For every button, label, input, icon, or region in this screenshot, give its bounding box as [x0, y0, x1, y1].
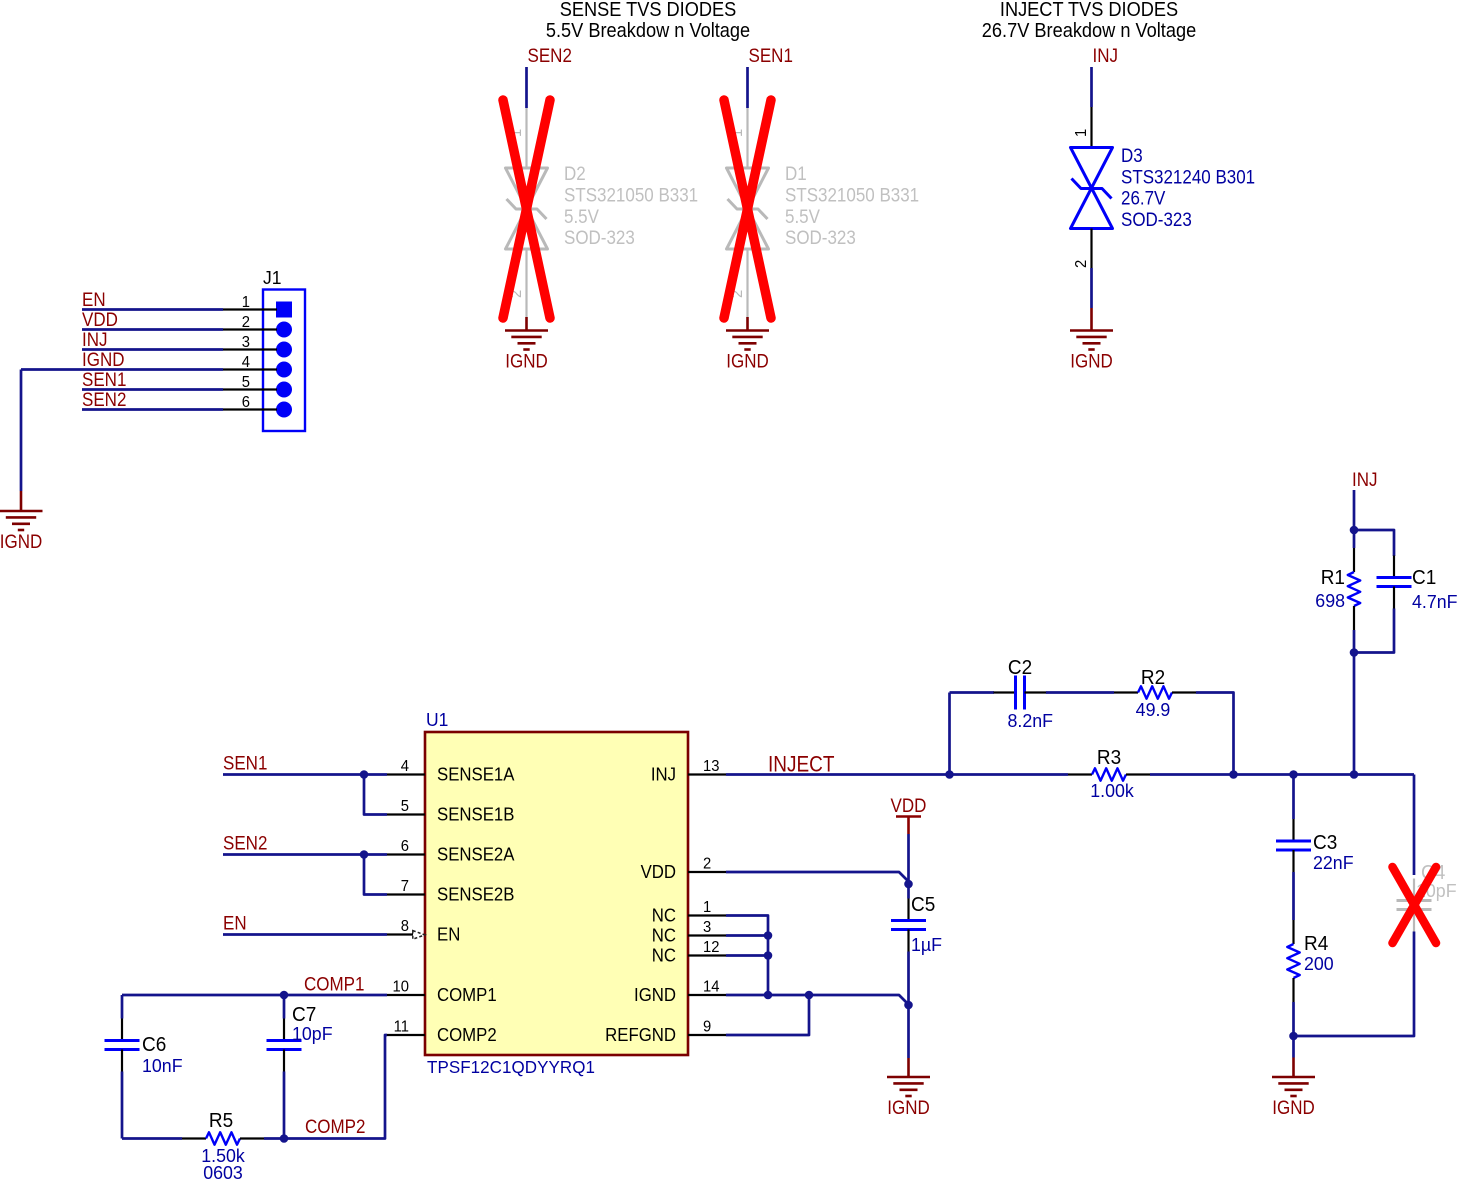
ground IGND (D1): [726, 329, 769, 332]
D3 pin 2 lead: [1090, 229, 1092, 269]
U1 pin 10 (COMP1) lead: [387, 994, 425, 996]
U1 pin 6 (SENSE2A) lead: [387, 853, 425, 855]
svg-text:INJECT TVS DIODES: INJECT TVS DIODES: [1000, 0, 1178, 21]
svg-text:COMP1: COMP1: [437, 984, 497, 1005]
node NC tie to IGND: [764, 991, 773, 1000]
J1 pin 5 lead: [223, 388, 277, 390]
wire SEN2 to D2: [525, 67, 528, 108]
svg-text:C2: C2: [1008, 657, 1032, 680]
node R4 / C4 return: [1289, 1032, 1298, 1041]
wire R3 to node: [1150, 773, 1234, 776]
svg-text:10pF: 10pF: [292, 1023, 333, 1045]
wire R1 top: [1353, 530, 1356, 548]
wire R1 bottom: [1353, 630, 1356, 653]
wire NC pin 12: [726, 954, 768, 957]
ground IGND (J1): [0, 510, 43, 513]
wire C1 branch top: [1354, 530, 1394, 556]
svg-text:22nF: 22nF: [1313, 852, 1354, 874]
wire main line right: [1234, 773, 1415, 776]
svg-text:INJ: INJ: [1093, 44, 1118, 66]
svg-text:NC: NC: [652, 905, 676, 926]
svg-text:1: 1: [1073, 129, 1091, 137]
wire C7 branch bottom: [283, 1072, 286, 1139]
D1 pin 1 lead: [746, 108, 748, 168]
U1 pin 12 (NC) lead: [688, 954, 726, 956]
U1 pin 1 (NC) lead: [688, 914, 726, 916]
svg-text:STS321050 B331: STS321050 B331: [564, 185, 698, 206]
wire net IGND to J1 pin 4: [21, 368, 223, 371]
J1 pin 6 round pad: [276, 402, 292, 418]
wire C3 to R4: [1292, 872, 1295, 920]
wire VDD down: [907, 834, 910, 884]
svg-text:INJ: INJ: [1352, 468, 1377, 490]
J1 pin 5 round pad: [276, 382, 292, 398]
wire INJECT from U1 pin 13: [726, 773, 950, 776]
node NC pin 12: [764, 951, 773, 960]
svg-text:26.7V Breakdow n Voltage: 26.7V Breakdow n Voltage: [982, 20, 1196, 42]
svg-text:SENSE1B: SENSE1B: [437, 804, 514, 825]
wire R2 to right corner: [1196, 693, 1234, 775]
svg-text:2: 2: [703, 855, 711, 873]
U1 pin 11 (COMP2) lead: [387, 1034, 425, 1036]
wire U1 pin 14 IGND: [726, 995, 909, 1005]
svg-text:R3: R3: [1097, 747, 1121, 770]
ground IGND (D3) stub: [1090, 308, 1093, 331]
svg-text:5: 5: [401, 798, 409, 816]
svg-text:NC: NC: [652, 925, 676, 946]
D1 pin 2 lead: [746, 249, 748, 317]
node NC pin 3: [764, 931, 773, 940]
U1 pin 13 (INJ) lead: [688, 773, 726, 775]
svg-text:D2: D2: [564, 163, 586, 184]
svg-text:IGND: IGND: [726, 349, 768, 371]
wire R4 bottom: [1292, 1002, 1295, 1058]
wire bottom C6 to R5: [122, 1137, 182, 1140]
svg-text:0603: 0603: [203, 1162, 243, 1180]
wire C2 to R2: [1046, 691, 1114, 694]
svg-text:4.7nF: 4.7nF: [1412, 591, 1458, 613]
node SEN1 split: [360, 770, 369, 779]
svg-text:7: 7: [401, 878, 409, 896]
wire IGND down from J1 pin 4: [20, 370, 23, 492]
svg-text:SENSE TVS DIODES: SENSE TVS DIODES: [560, 0, 737, 21]
svg-text:SENSE2B: SENSE2B: [437, 884, 514, 905]
J1 pin 6 lead: [223, 408, 277, 410]
svg-text:TPSF12C1QDYYRQ1: TPSF12C1QDYYRQ1: [427, 1057, 595, 1077]
svg-text:IGND: IGND: [634, 984, 676, 1005]
svg-text:2: 2: [1073, 260, 1091, 268]
node COMP2 / C7 junction: [280, 1134, 289, 1143]
U1 pin 8 (EN) input triangle: [413, 931, 425, 940]
ground IGND (D3): [1070, 329, 1113, 332]
svg-text:8.2nF: 8.2nF: [1008, 710, 1054, 732]
svg-text:IGND: IGND: [1070, 349, 1112, 371]
svg-text:REFGND: REFGND: [605, 1024, 676, 1045]
U1 pin 9 (REFGND) lead: [688, 1034, 726, 1036]
wire C2 branch top left: [950, 691, 995, 694]
resistor R5: [182, 1137, 206, 1139]
capacitor C6: [121, 1019, 123, 1041]
svg-text:6: 6: [401, 838, 409, 856]
node REFGND join: [805, 991, 814, 1000]
J1 pin 1 square pad: [276, 302, 292, 318]
wire SEN2 to pin 7: [364, 855, 387, 895]
resistor R1: [1353, 548, 1355, 572]
wire net SEN2 to J1 pin 6: [82, 408, 223, 411]
svg-text:R2: R2: [1141, 667, 1165, 690]
node R1/C1 top: [1350, 526, 1359, 535]
svg-text:EN: EN: [437, 924, 460, 945]
D2 pin 2 lead: [525, 249, 527, 317]
TVS diode D3: [1071, 148, 1113, 189]
capacitor C1: [1393, 556, 1395, 578]
U1 pin 7 (SENSE2B) lead: [387, 893, 425, 895]
node R1/C1 bottom: [1350, 648, 1359, 657]
svg-text:IGND: IGND: [0, 530, 42, 552]
ground IGND (C5) stub: [907, 1058, 910, 1077]
svg-text:3: 3: [703, 919, 711, 937]
svg-text:VDD: VDD: [891, 794, 927, 816]
wire SEN1: [223, 773, 387, 776]
node R1/C1 branch: [1350, 770, 1359, 779]
U1 pin 4 (SENSE1A) lead: [387, 773, 425, 775]
node R2/R3 join: [1229, 770, 1238, 779]
wire SEN1 to pin 5: [364, 775, 387, 815]
svg-text:SOD-323: SOD-323: [564, 227, 635, 248]
resistor R4: [1292, 920, 1294, 944]
svg-text:1.00k: 1.00k: [1090, 780, 1134, 802]
svg-text:4: 4: [242, 354, 251, 372]
U1 pin 5 (SENSE1B) lead: [387, 813, 425, 815]
wire INJECT to R3: [950, 773, 1069, 776]
wire U1 pin 2 VDD: [726, 872, 909, 882]
svg-text:4: 4: [401, 758, 410, 776]
svg-text:STS321050 B331: STS321050 B331: [785, 185, 919, 206]
red X over C4: [1393, 867, 1437, 943]
wire down to main line: [1353, 653, 1356, 775]
svg-text:VDD: VDD: [641, 861, 676, 882]
wire REFGND pin 9: [726, 995, 809, 1035]
J1 pin 2 round pad: [276, 322, 292, 338]
ground IGND (R4) stub: [1292, 1058, 1295, 1078]
node COMP1 / C7 junction: [280, 991, 289, 1000]
svg-text:IGND: IGND: [505, 349, 547, 371]
wire INJ to D3: [1090, 67, 1093, 107]
capacitor C4 (not fitted): [1413, 879, 1415, 901]
wire COMP2 to U1 pin 11: [264, 1035, 387, 1139]
svg-text:26.7V: 26.7V: [1121, 188, 1166, 209]
J1 pin 2 lead: [223, 328, 277, 330]
svg-text:10: 10: [393, 978, 409, 996]
svg-text:5.5V Breakdow n Voltage: 5.5V Breakdow n Voltage: [546, 20, 750, 42]
svg-text:12: 12: [703, 939, 719, 957]
wire NC pin 3: [726, 934, 768, 937]
svg-text:49.9: 49.9: [1136, 699, 1171, 721]
wire C6 branch bottom: [121, 1072, 124, 1139]
svg-text:SEN1: SEN1: [223, 751, 267, 773]
capacitor C7: [283, 1019, 285, 1041]
wire C6 branch top: [121, 995, 124, 1019]
ground IGND (D2) stub: [525, 317, 528, 331]
svg-text:1µF: 1µF: [911, 934, 942, 956]
svg-text:R5: R5: [209, 1110, 233, 1133]
capacitor C3: [1292, 819, 1294, 841]
svg-text:SEN2: SEN2: [223, 831, 267, 853]
U1 pin 2 (VDD) lead: [688, 871, 726, 873]
ground IGND (R4): [1272, 1076, 1315, 1079]
svg-text:3: 3: [242, 334, 250, 352]
svg-text:IGND: IGND: [1272, 1096, 1314, 1118]
svg-text:INJ: INJ: [651, 764, 676, 785]
U1 pin 14 (IGND) lead: [688, 994, 726, 996]
svg-text:R1: R1: [1321, 567, 1345, 590]
svg-text:6: 6: [242, 394, 250, 412]
wire C3 branch top: [1292, 775, 1295, 820]
svg-text:COMP2: COMP2: [437, 1024, 497, 1045]
svg-text:NC: NC: [652, 945, 676, 966]
svg-text:1: 1: [703, 899, 711, 917]
wire C1 branch bottom: [1354, 609, 1394, 653]
svg-text:C1: C1: [1412, 567, 1436, 590]
svg-text:D1: D1: [785, 163, 807, 184]
svg-text:5.5V: 5.5V: [564, 206, 600, 227]
node SEN2 split: [360, 850, 369, 859]
resistor R2: [1114, 691, 1138, 693]
wire SEN1 to D1: [746, 67, 749, 108]
svg-text:11: 11: [394, 1018, 409, 1036]
svg-text:SENSE1A: SENSE1A: [437, 764, 515, 785]
U1 pin 8 (EN) lead: [387, 933, 413, 935]
wire net INJ to J1 pin 3: [82, 348, 223, 351]
D2 pin 1 lead: [525, 108, 527, 168]
ground IGND (C5): [887, 1076, 930, 1079]
node IGND / C5 bottom: [904, 1001, 913, 1010]
svg-text:5.5V: 5.5V: [785, 206, 821, 227]
wire net EN to J1 pin 1: [82, 308, 223, 311]
wire EN: [223, 933, 387, 936]
svg-text:13: 13: [703, 758, 719, 776]
svg-text:U1: U1: [426, 709, 448, 730]
svg-text:D3: D3: [1121, 145, 1143, 166]
svg-text:1: 1: [242, 294, 250, 312]
wire C2 branch up: [948, 693, 951, 775]
J1 pin 4 round pad: [276, 362, 292, 378]
svg-text:COMP1: COMP1: [304, 972, 364, 994]
svg-text:SEN2: SEN2: [528, 44, 572, 66]
capacitor C2: [994, 691, 1016, 693]
red X over D2: [503, 100, 550, 318]
wire C4 bottom to R4 node: [1294, 932, 1415, 1037]
svg-text:5: 5: [242, 374, 250, 392]
D3 pin 1 lead: [1090, 107, 1092, 148]
svg-text:2: 2: [242, 314, 250, 332]
svg-text:J1: J1: [263, 267, 281, 288]
svg-text:8: 8: [401, 918, 409, 936]
TVS diode D2 (not fitted): [506, 168, 548, 209]
svg-text:698: 698: [1315, 590, 1345, 612]
svg-text:10nF: 10nF: [142, 1055, 183, 1077]
svg-text:EN: EN: [223, 911, 247, 933]
node C3 branch: [1289, 770, 1298, 779]
ground IGND (D2): [505, 329, 548, 332]
TVS diode D1 (not fitted): [727, 168, 769, 209]
node INJECT / C2 branch: [945, 770, 954, 779]
wire net VDD to J1 pin 2: [82, 328, 223, 331]
svg-text:200: 200: [1304, 953, 1334, 975]
wire D3 to ground: [1090, 268, 1093, 308]
svg-text:SOD-323: SOD-323: [1121, 209, 1192, 230]
svg-text:C5: C5: [911, 894, 935, 917]
svg-text:C6: C6: [142, 1034, 166, 1057]
svg-text:SEN2: SEN2: [82, 388, 126, 410]
svg-text:COMP2: COMP2: [305, 1115, 365, 1137]
resistor R3: [1068, 773, 1092, 775]
IC U1 body: [425, 732, 688, 1055]
wire C7 branch top: [283, 995, 286, 1019]
J1 pin 1 lead: [223, 308, 277, 310]
svg-text:14: 14: [703, 978, 720, 996]
wire C4 branch down: [1413, 775, 1416, 876]
svg-text:SOD-323: SOD-323: [785, 227, 856, 248]
wire COMP1: [122, 994, 387, 997]
ground IGND (J1) stub: [20, 491, 23, 511]
node VDD / C5 top: [904, 880, 913, 889]
J1 pin 4 lead: [223, 368, 277, 370]
J1 pin 3 round pad: [276, 342, 292, 358]
svg-text:IGND: IGND: [887, 1096, 929, 1118]
svg-text:SEN1: SEN1: [749, 44, 793, 66]
U1 pin 3 (NC) lead: [688, 934, 726, 936]
wire C5 bottom: [907, 952, 910, 1059]
ground IGND (D1) stub: [746, 317, 749, 331]
wire net SEN1 to J1 pin 5: [82, 388, 223, 391]
J1 pin 3 lead: [223, 348, 277, 350]
red X over D1: [724, 100, 771, 318]
svg-text:STS321240 B301: STS321240 B301: [1121, 166, 1255, 187]
capacitor C5: [907, 899, 909, 921]
wire SEN2: [223, 853, 387, 856]
NC pins tie: wire pin 1: [726, 916, 768, 996]
svg-text:9: 9: [703, 1018, 711, 1036]
wire to C5: [907, 884, 910, 899]
svg-text:SENSE2A: SENSE2A: [437, 844, 515, 865]
wire INJ down: [1353, 490, 1356, 530]
